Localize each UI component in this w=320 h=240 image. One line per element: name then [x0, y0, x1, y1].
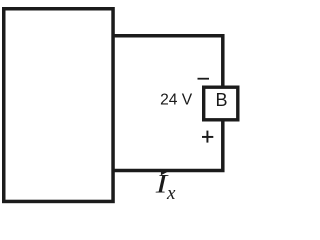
svg-text:B: B	[215, 90, 227, 110]
svg-text:24 V: 24 V	[160, 92, 193, 109]
svg-text:x: x	[166, 183, 176, 204]
